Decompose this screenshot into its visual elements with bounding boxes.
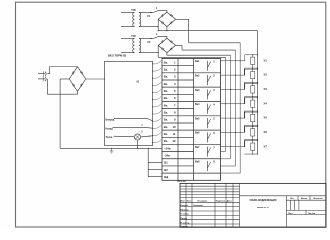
terminal label Вх.5 bbox=[164, 89, 176, 93]
wire Nazad to input 10 bbox=[113, 127, 148, 129]
svg-text:У7: У7 bbox=[264, 144, 268, 148]
terminal label +24в bbox=[164, 146, 171, 150]
solenoid coil У5 bbox=[251, 114, 255, 121]
terminal label Вх.7 bbox=[164, 103, 176, 107]
switch contact input 2 bbox=[152, 68, 161, 72]
terminal label Вх.1 bbox=[164, 60, 176, 64]
bus 4 to terminal BD bbox=[221, 172, 241, 174]
title block signature rows bbox=[180, 204, 203, 228]
svg-text:У3: У3 bbox=[264, 87, 268, 91]
svg-text:Вн8: Вн8 bbox=[195, 160, 200, 163]
solenoid coil У1 bbox=[251, 57, 255, 64]
label У3 bbox=[264, 87, 268, 91]
svg-text:Новиков: Новиков bbox=[194, 205, 204, 207]
output row У2 wiring bbox=[221, 69, 259, 90]
switch contact input 10 bbox=[152, 125, 161, 129]
svg-text:Вх.: Вх. bbox=[164, 125, 169, 129]
svg-text:Вх.: Вх. bbox=[164, 111, 169, 115]
svg-text:Изм: Изм bbox=[180, 201, 185, 203]
relay contact Вн7 bbox=[195, 145, 215, 157]
transformer Т46 bbox=[121, 34, 152, 53]
svg-text:Вх.: Вх. bbox=[164, 132, 169, 136]
solenoid coil У7 bbox=[251, 143, 255, 150]
title block lit massa masshtab bbox=[288, 197, 323, 215]
bus line 1 bbox=[225, 57, 227, 151]
wire motor to input 11 bbox=[141, 136, 153, 137]
terminal label Вх.2 bbox=[164, 68, 176, 72]
svg-text:Т. контр.: Т. контр. bbox=[180, 214, 189, 216]
wire bridge VD2 left corner down to bus 1 feed bbox=[157, 45, 159, 57]
terminal block table bbox=[162, 59, 221, 181]
wire bus 1 feed horizontal bbox=[158, 56, 225, 58]
terminal label Вх.12 bbox=[164, 139, 176, 143]
wire T46 secondary bottom bbox=[152, 52, 158, 54]
svg-text:Вх.: Вх. bbox=[164, 103, 169, 107]
svg-text:Вн4: Вн4 bbox=[195, 103, 200, 106]
svg-text:Вн1: Вн1 bbox=[195, 60, 200, 63]
switch contact input 4 bbox=[152, 82, 161, 86]
svg-text:-24в: -24в bbox=[164, 154, 170, 158]
bus 1 to terminal -24v bbox=[221, 151, 226, 153]
svg-text:Масштаб: Масштаб bbox=[314, 197, 324, 200]
wire Tolchk to motor bbox=[114, 135, 135, 138]
svg-text:Лидер: Лидер bbox=[180, 218, 187, 220]
bus line 2 bbox=[230, 55, 232, 159]
label У2 bbox=[264, 73, 268, 77]
connector X1 bbox=[38, 69, 46, 81]
wire bridge VD2 bottom corner to bus 2 feed bbox=[166, 53, 168, 56]
switch contact input 6 bbox=[152, 97, 161, 101]
terminal label Вх.9 bbox=[164, 118, 176, 122]
svg-text:ВД: ВД bbox=[164, 175, 168, 179]
bridge rectifier VD2 bbox=[158, 38, 175, 52]
bridge rectifier VD3 bbox=[69, 67, 86, 92]
wire T45 secondary bottom bbox=[152, 26, 158, 28]
svg-text:Лист: Лист bbox=[187, 201, 192, 203]
switch contact input 9 bbox=[152, 118, 161, 122]
switch contact input 11 bbox=[152, 132, 161, 136]
svg-text:Утверд.: Утверд. bbox=[180, 226, 188, 228]
bridge rectifier VD1 bbox=[158, 12, 175, 26]
wire bridge VD2 right corner to bus 3 feed bbox=[176, 44, 182, 46]
label Tolchk bbox=[106, 136, 114, 139]
svg-text:12: 12 bbox=[172, 139, 176, 143]
label 91 inside U1 bbox=[137, 80, 140, 83]
terminal label Вх.3 bbox=[164, 75, 176, 79]
ground bbox=[110, 148, 114, 153]
terminal label -24в bbox=[164, 154, 170, 158]
switch contact input 1 bbox=[152, 61, 161, 65]
output row У6 wiring bbox=[221, 126, 259, 147]
svg-text:Т46: Т46 bbox=[131, 34, 136, 38]
fuse F1 bbox=[148, 8, 163, 18]
output row У1 wiring bbox=[221, 54, 259, 75]
title block header row bbox=[180, 200, 232, 203]
wire T45 secondary top to bridge VD1 bbox=[162, 9, 167, 11]
output row У3 wiring bbox=[221, 83, 259, 104]
svg-text:У1: У1 bbox=[264, 58, 268, 62]
svg-text:+24в: +24в bbox=[164, 146, 171, 150]
terminal label В1 bbox=[164, 161, 168, 165]
switch contact input 3 bbox=[152, 75, 161, 79]
switch contact input 7 bbox=[152, 104, 161, 108]
svg-text:Вн2: Вн2 bbox=[195, 74, 200, 77]
wire bridge VD3 right to U1 box bbox=[86, 78, 105, 80]
svg-text:Н. контр.: Н. контр. bbox=[180, 222, 190, 224]
terminal label Вх.11 bbox=[164, 132, 176, 136]
label У1 bbox=[264, 58, 268, 62]
svg-text:СХЕМА МОДИФИКАЦИИ: СХЕМА МОДИФИКАЦИИ bbox=[249, 199, 276, 202]
svg-text:У5: У5 bbox=[264, 116, 268, 120]
svg-text:схема эл. п.: схема эл. п. bbox=[257, 207, 269, 209]
svg-text:Лист: Лист bbox=[288, 213, 293, 215]
switch contact input 12 bbox=[152, 139, 161, 143]
wire common rail horizontal run bbox=[158, 30, 257, 32]
svg-text:Вх.: Вх. bbox=[164, 96, 169, 100]
output row У7 wiring bbox=[221, 140, 259, 154]
svg-text:Вперед: Вперед bbox=[106, 118, 115, 121]
svg-text:Масса: Масса bbox=[301, 198, 308, 200]
bus 3 to terminal B2 bbox=[221, 165, 236, 167]
label Vpered bbox=[106, 118, 115, 121]
terminal label Вх.10 bbox=[164, 125, 176, 129]
svg-text:Лит.: Лит. bbox=[290, 198, 294, 200]
svg-text:Вх.: Вх. bbox=[164, 82, 169, 86]
wire connector bottom to bridge VD3 bbox=[46, 79, 48, 94]
svg-text:ПР1-19: ПР1-19 bbox=[177, 180, 186, 183]
solenoid coil У4 bbox=[251, 100, 255, 107]
output row У4 wiring bbox=[221, 97, 259, 118]
solenoid coil У3 bbox=[251, 86, 255, 93]
bus line 3 bbox=[235, 50, 237, 166]
terminal label В2 bbox=[164, 168, 168, 172]
svg-text:Т45: Т45 bbox=[131, 8, 136, 12]
svg-text:Толчк.: Толчк. bbox=[106, 136, 114, 139]
relay contact Вн4 bbox=[195, 102, 215, 114]
svg-text:Вн3: Вн3 bbox=[195, 89, 200, 92]
wire Vpered to input 9 bbox=[114, 118, 148, 120]
label У6 bbox=[264, 130, 268, 134]
svg-text:В2: В2 bbox=[164, 168, 168, 172]
svg-text:Вх.: Вх. bbox=[164, 75, 169, 79]
title block table bbox=[180, 183, 326, 227]
relay contact Вн3 bbox=[195, 88, 215, 100]
svg-text:Вх.: Вх. bbox=[164, 89, 169, 93]
wire connector top to bridge VD3 bbox=[47, 73, 49, 75]
svg-text:10: 10 bbox=[172, 125, 176, 129]
terminal label Вх.4 bbox=[164, 82, 176, 86]
svg-text:11: 11 bbox=[173, 132, 176, 136]
svg-text:Вн6: Вн6 bbox=[195, 132, 200, 135]
svg-text:Разраб.: Разраб. bbox=[180, 204, 189, 207]
wire bridge VD3 left down to bottom rail bbox=[60, 78, 69, 80]
svg-text:Вх.: Вх. bbox=[164, 60, 169, 64]
terminal label Вх.6 bbox=[164, 96, 176, 100]
wire motor to bottom rail bbox=[137, 140, 139, 148]
svg-text:Вх.: Вх. bbox=[164, 139, 169, 143]
svg-text:Назад: Назад bbox=[106, 128, 114, 131]
motor symbol M1 bbox=[134, 134, 140, 140]
relay contact Вн5 bbox=[195, 117, 215, 129]
label BKZ TORM 82 bbox=[108, 54, 127, 58]
relay contact Вн8 bbox=[195, 160, 215, 172]
bus 2 to terminal B1 bbox=[221, 158, 231, 160]
wire T46 secondary top to bridge VD2 bbox=[162, 35, 167, 37]
label У7 bbox=[264, 144, 268, 148]
bottom rail to terminal +24v bbox=[60, 147, 162, 149]
svg-text:В1: В1 bbox=[164, 161, 168, 165]
switch contact input 5 bbox=[152, 89, 161, 93]
svg-text:У2: У2 bbox=[264, 73, 268, 77]
label ПР1-19 bbox=[177, 180, 186, 183]
svg-text:ВКЗ ТОРМ 82: ВКЗ ТОРМ 82 bbox=[108, 54, 127, 58]
relay contact Вн1 bbox=[195, 59, 215, 71]
label Nazad bbox=[106, 128, 114, 131]
label У4 bbox=[264, 101, 268, 105]
svg-text:Вх.: Вх. bbox=[164, 68, 169, 72]
svg-text:Листов: Листов bbox=[308, 213, 316, 215]
solenoid coil У2 bbox=[251, 71, 255, 78]
common rail vertical bbox=[257, 31, 259, 155]
terminal label ВД bbox=[164, 175, 168, 179]
fuse F2 bbox=[148, 34, 163, 44]
wire bridge VD1 bottom corner down bbox=[166, 27, 168, 31]
relay contact Вн6 bbox=[195, 131, 215, 143]
switch contact input 8 bbox=[152, 111, 161, 115]
svg-text:Вх.: Вх. bbox=[164, 118, 169, 122]
transformer Т45 bbox=[121, 8, 152, 27]
wire bridge VD1 right corner to bus 4 bbox=[176, 18, 189, 20]
svg-text:Провер.: Провер. bbox=[180, 209, 189, 211]
svg-text:Подпись: Подпись bbox=[216, 201, 226, 203]
wire bridge VD1 left corner down bbox=[157, 19, 159, 30]
solenoid coil У6 bbox=[251, 129, 255, 136]
svg-text:Вн5: Вн5 bbox=[195, 117, 200, 120]
output row У5 wiring bbox=[221, 112, 259, 133]
control unit U1 box bbox=[104, 61, 152, 145]
svg-text:У6: У6 bbox=[264, 130, 268, 134]
label У5 bbox=[264, 116, 268, 120]
title block document name bbox=[249, 199, 276, 209]
terminal label Вх.8 bbox=[164, 111, 176, 115]
svg-text:Дата: Дата bbox=[227, 201, 233, 203]
svg-text:У4: У4 bbox=[264, 101, 268, 105]
svg-text:Вн7: Вн7 bbox=[195, 146, 200, 149]
wire U1 to terminal rows B1 B2 BD bbox=[148, 148, 162, 177]
svg-text:№ докум.: № докум. bbox=[198, 200, 208, 203]
relay contact Вн2 bbox=[195, 74, 215, 86]
bus line 4 bbox=[239, 43, 241, 173]
